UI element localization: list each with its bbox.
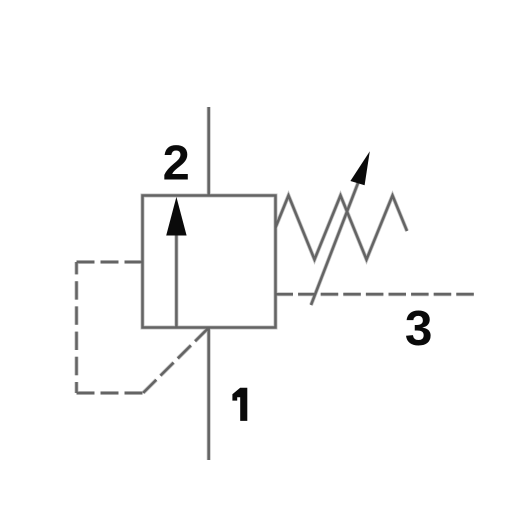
linework soft underlay — [77, 107, 475, 460]
label 1 — [232, 388, 247, 421]
internal flow-path arrowhead — [166, 197, 186, 236]
svg-text:2: 2 — [163, 137, 190, 191]
linework core — [77, 107, 475, 460]
adjustment arrowhead — [350, 151, 369, 185]
svg-text:3: 3 — [405, 301, 433, 356]
